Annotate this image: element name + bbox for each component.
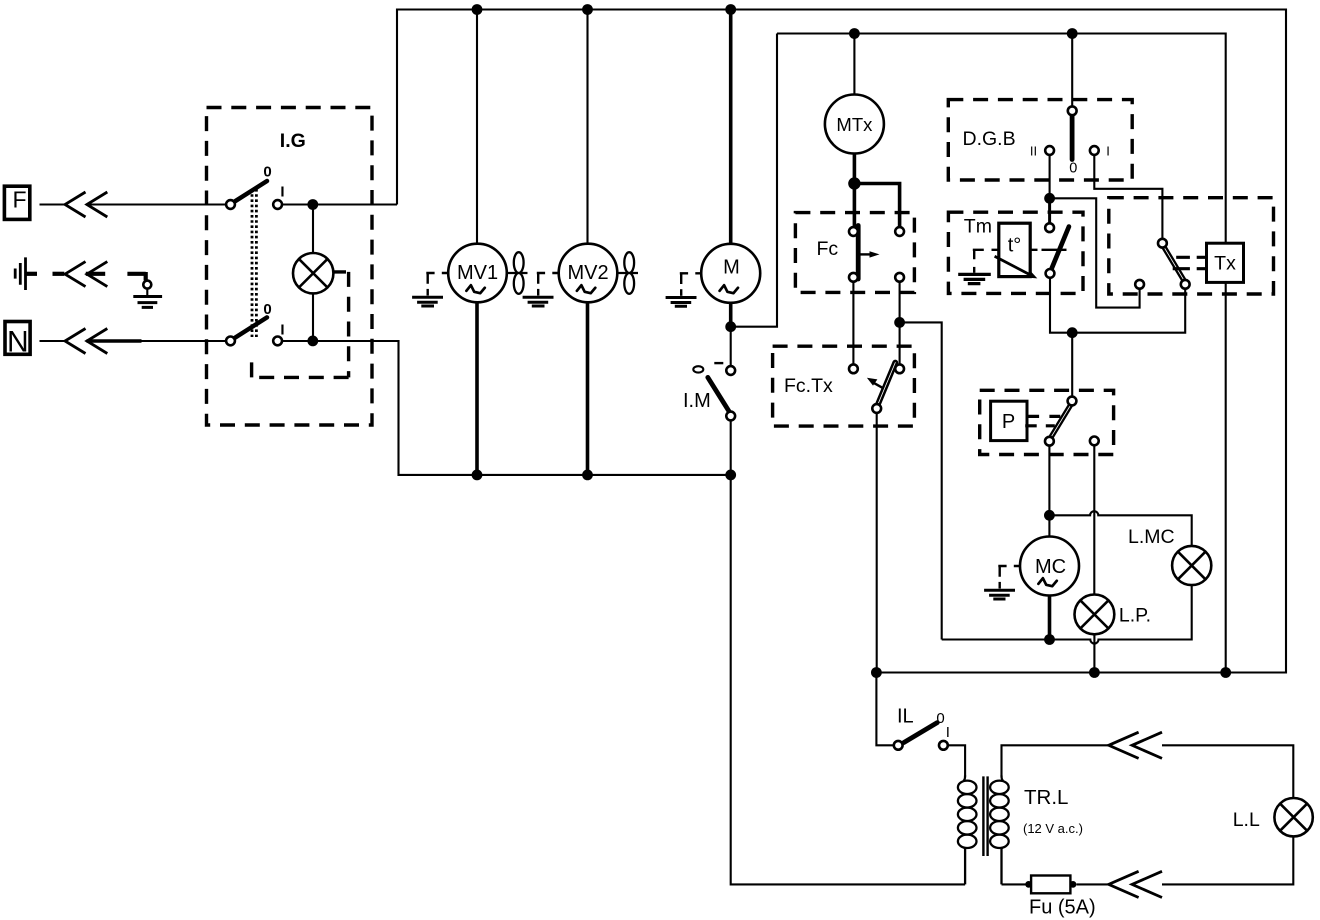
wire Fc right to riser941 [900,322,942,639]
svg-text:IL: IL [897,706,914,728]
svg-text:I: I [280,184,284,201]
wire N mid [87,340,228,342]
wire MV1 riser top [476,10,478,245]
svg-text:MV2: MV2 [567,262,608,284]
contact IL right [939,741,948,750]
wire N to lower bus [281,341,731,475]
switch D.G.B lever [1070,114,1075,160]
switch I.G lower lever [232,317,267,339]
svg-text:II: II [1030,144,1037,159]
svg-text:MC: MC [1035,556,1066,578]
timer Tx mech link dashes [1173,257,1207,268]
wire F to top bus riser [281,203,397,205]
svg-text:L.MC: L.MC [1128,526,1175,548]
contact Fc top right [895,227,904,236]
motor M [701,244,760,303]
contact I.G upper pivot [226,200,235,209]
wire lamp IG top link [312,205,314,254]
svg-text:Fu (5A): Fu (5A) [1029,897,1096,919]
wire earth stub 1 [26,272,38,276]
fan MV1 [507,252,528,294]
thermostat enclosure Tm [948,212,1083,293]
wire IL right to transformer primary [948,745,965,776]
contact I.M pivot [726,412,735,421]
node F lamp junction [307,199,318,210]
wire MTx bottom thick [853,153,857,184]
wire DGB II contact down [1049,155,1051,199]
contact I.G lower fixed [273,337,282,346]
contact Fc.Tx right [895,364,904,373]
wire MC top rail y515 with hop [1049,511,1191,546]
wire LL top right [1162,745,1293,799]
transformer TR.L core [983,776,987,856]
contact P pivot [1045,437,1054,446]
node top bus M [725,4,736,15]
OUTLINED LEVERS [877,245,1185,439]
wire M riser top thick [729,10,733,246]
wire MC top feed [1048,515,1050,536]
contact D.G.B I [1090,146,1099,155]
svg-text:Tx: Tx [1214,253,1236,275]
svg-text:I: I [1106,144,1110,159]
svg-text:L.P.: L.P. [1119,605,1151,627]
wire MV2 riser top [586,10,588,245]
wire DGB II net to Tx idle contact [1050,198,1140,307]
svg-text:P: P [1002,411,1015,433]
contact I.G lower pivot [226,337,235,346]
svg-text:I.G: I.G [280,130,306,152]
wire second bus [777,34,1226,244]
wire earth stem [146,289,148,296]
svg-text:L.L: L.L [1233,809,1260,831]
fuse Fu end dots [1025,881,1032,888]
wire F mid [87,203,228,205]
wire earth stub 3 [86,272,105,276]
svg-text:MV1: MV1 [457,262,498,284]
node Tm P junction [1067,327,1078,338]
svg-text:Fc: Fc [817,238,839,260]
motor MV1 ac squiggle [466,285,484,293]
wire secondary bottom to fuse [1002,883,1027,885]
node MTx below motor [848,177,860,189]
contact Fc.Tx pivot [872,404,881,413]
switch enclosure Fc [795,213,914,293]
contact I.M fixed [726,366,735,375]
switch enclosure I.G [207,108,373,426]
node lower bus MV1 [472,470,483,481]
wire lamp IG bottom link [312,292,314,341]
svg-text:TR.L: TR.L [1024,786,1068,809]
switch I.M lever [708,377,731,414]
ground MC [984,566,1020,599]
svg-text:F: F [12,187,26,213]
wire M junction to second bus [731,34,777,327]
switch Fc lever [856,226,861,280]
wire DGB II to Tm contact [1048,198,1051,223]
svg-text:Fc.Tx: Fc.Tx [784,375,833,397]
wire Tm pivot to Tx pivot [1050,278,1185,333]
svg-text:N: N [7,326,29,359]
contact Tx idle [1135,280,1144,289]
switch Tm lever [1050,227,1069,272]
svg-text:M: M [723,257,740,279]
switch IL lever [904,723,938,743]
motor M ac squiggle [720,285,738,293]
wire secondary top to LL lamp [1002,745,1109,776]
wire MV2 riser bottom thick [586,301,590,475]
svg-text:0: 0 [263,164,271,181]
timer box Tx [1207,243,1244,282]
lamp L.P. [1075,595,1115,635]
node Fc right riser [894,317,905,328]
wire MTx junction to Fc contacts thick [853,184,900,228]
wire bus to IL switch [876,673,894,746]
connector N plug [65,329,107,354]
thermostat Tm mech link dashes [992,249,1067,251]
wire top bus + right border + bottom bus [397,10,1286,673]
node top bus MV2 [582,4,593,15]
wire Fc left contact down to FcTx [852,282,854,365]
ground earth below link circle [133,297,162,308]
svg-text:Tm: Tm [964,216,992,238]
pressure P mech link dashes [1025,416,1060,425]
contact Tm fixed [1045,223,1054,232]
svg-text:0: 0 [263,301,271,318]
wire node to P switch [1071,333,1073,397]
lamp I.G pilot [293,253,333,293]
connector lamp circuit bottom plug [1109,871,1162,897]
connector earth plug [65,262,107,287]
node N lamp junction [307,336,318,347]
motor MTx [825,95,884,154]
MOTORS [448,95,1079,596]
node bottom bus Tx [1220,667,1231,678]
svg-text:t°: t° [1008,235,1022,257]
wire earth stub corner [127,272,145,280]
ground MV1 [412,273,448,306]
motor MC ac squiggle [1038,578,1056,586]
CONTACT CIRCLES [143,106,1189,749]
wire LP lamp bottom [1093,634,1095,672]
wire FcTx pivot down to bus [876,413,878,673]
wire P right contact down to LP lamp [1093,445,1095,594]
contact Tx top [1158,239,1167,248]
wire Tx box to bottom bus [1225,282,1227,673]
contact D.G.B pivot [1068,106,1077,115]
node earth link circle [143,281,151,289]
wire IM out to transformer primary return [731,420,965,884]
enclosure I.G inner lamp box [252,272,349,378]
node MC bottom junction [1044,634,1055,645]
wire MTx feed [853,34,855,96]
ground M [666,273,702,306]
wire fuse right lead [1077,883,1109,885]
contact Tm pivot [1046,269,1055,278]
thermostat Tm arrow [995,256,1030,274]
contact Fc bottom right [895,273,904,282]
CONNECTOR CHEVRONS [65,192,1162,898]
svg-text:D.G.B: D.G.B [963,128,1016,150]
node lower bus MV2 [582,470,593,481]
wire DGB I net to Tx switch [1094,155,1162,239]
lamp L.L [1274,798,1312,836]
switch enclosure Tx [1109,198,1274,294]
switch Tx lever [1163,245,1185,282]
motor MC [1020,537,1079,596]
svg-text:I: I [946,724,950,741]
contact P right [1090,437,1099,446]
contact IL left [894,741,903,750]
ground MV2 [523,273,559,306]
fan MV2 [617,252,638,294]
pressure box P [991,401,1027,440]
SOLID LEVERS [232,114,1072,743]
node DGB II junction [1044,193,1055,204]
switch P lever [1050,403,1072,439]
wire Fc right contact down to FcTx [899,282,901,365]
switch enclosure P [980,390,1114,454]
I.G coupling dotted link [252,189,256,337]
node M below motor [725,321,736,332]
fuse Fu body [1031,876,1070,894]
contact Fc bottom left [849,273,858,282]
WIRES-THICK [26,10,1050,640]
wire MC bottom thick [1048,595,1052,639]
node lower bus M [725,470,736,481]
terminal box N [5,322,30,355]
node second bus DGB [1067,28,1078,39]
motor MV2 ac squiggle [577,285,595,293]
svg-text:(12 V a.c.): (12 V a.c.) [1023,821,1083,836]
connector F plug [65,192,107,217]
wire earth stub 2 [53,272,65,276]
contact Fc.Tx left [849,364,858,373]
wire LL bottom [1162,836,1293,884]
switch I.M position marks [693,366,703,372]
DASHED BOXES [207,100,1274,455]
wire lamps bottom rail y639 with hop [942,585,1192,643]
node second bus MTx [849,28,860,39]
connector lamp circuit top plug [1109,732,1162,758]
motor MV1 [448,244,507,303]
transformer TR.L primary coil [958,776,977,885]
svg-text:I.M: I.M [683,390,711,412]
contact Tx pivot [1181,280,1190,289]
switch I.G upper lever [232,181,267,203]
switch Fc.Tx lever [877,363,895,407]
ground mains input (rotated) [15,257,25,290]
contact P top [1068,397,1077,406]
contact Fc top left [849,227,858,236]
svg-text:0: 0 [1069,161,1077,177]
wire M junction to IM contact [730,327,732,367]
node top bus MV1 [472,4,483,15]
switch Fc actuating arrow [858,253,871,255]
switch Fc.Tx actuating arrow [873,382,884,388]
ground Tm [958,250,991,284]
switch enclosure Fc.Tx [773,346,915,426]
wire F lead [40,203,65,205]
motor MV2 [559,244,618,303]
contact D.G.B II [1045,146,1054,155]
lamp L.MC [1172,546,1211,585]
node bottom bus LP [1089,667,1100,678]
wire M bottom thick [729,301,733,327]
switch enclosure D.G.B [948,100,1132,180]
node bottom bus IL [871,667,882,678]
wire N thick segment [87,339,142,343]
wire MV1 riser bottom thick [475,301,479,475]
svg-text:0: 0 [936,710,944,727]
terminal box F [4,186,29,219]
contact I.G upper fixed [273,200,282,209]
LAMPS [293,253,1313,836]
wire P pivot down [1048,446,1050,516]
svg-text:MTx: MTx [836,114,873,135]
thermostat t-box Tm [999,223,1030,276]
wire N lead [40,340,65,342]
transformer TR.L secondary coil [990,776,1009,885]
node P MC junction [1044,510,1055,521]
wire DGB feed [1071,34,1073,107]
svg-text:I: I [280,322,284,339]
